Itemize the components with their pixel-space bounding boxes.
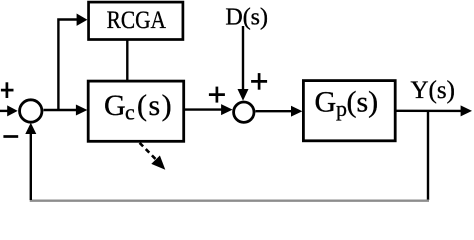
svg-text:c: c <box>125 100 135 125</box>
svg-text:G: G <box>104 89 126 122</box>
svg-text:p: p <box>336 96 347 121</box>
svg-text:Y(s): Y(s) <box>410 77 454 104</box>
svg-text:D(s): D(s) <box>225 4 268 30</box>
svg-text:(s): (s) <box>137 89 173 122</box>
svg-text:G: G <box>315 85 337 118</box>
svg-text:(s): (s) <box>347 85 379 118</box>
svg-text:RCGA: RCGA <box>107 6 167 34</box>
